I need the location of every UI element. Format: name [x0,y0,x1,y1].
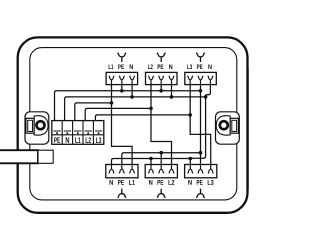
top box U2 terminal forks [148,76,174,85]
strain relief symbol below U4 [117,189,126,198]
strain relief symbol above U2 [157,53,166,62]
wire bottom N bus (y=158.5) [112,159,191,165]
bottom box U4 labels N PE L1 [109,180,134,185]
bottom box U6 labels N PE L3 [188,180,213,185]
wire bottom box2 N terminal to bottom N bus [150,159,152,165]
cable gland right (mirrored) [215,112,239,144]
wire bottom box3 N terminal to junction [189,158,191,164]
top box U3 terminal forks [187,76,213,85]
wire N feeder: N bus end down, jog left to bottom N bus end [190,95,205,159]
bottom box U5 labels N PE L2 [149,180,174,185]
wire top box3 PE terminal through PE bus end down to bottom PE bus [200,85,202,165]
strain relief symbol below U6 [196,189,205,198]
junction dots bottom PE bus [159,151,202,155]
top box U3 labels L3 PE N [187,64,211,69]
wire top box3 N terminal jog to N bus end [206,85,211,95]
top box U2 labels L2 PE N [148,64,172,69]
wire bottom box2 PE terminal to bottom PE bus [160,153,162,165]
cropped object at right image edge [247,69,249,190]
cable gland left (with clamp and sealing nut) [25,112,49,144]
junction dots bottom N bus [149,157,192,161]
strain relief symbol below U5 [157,189,166,198]
wire L2 drop: top box2 L2 terminal to L2 bus to bottom box2 L2 [151,85,172,165]
bottom box U5 terminal forks [148,165,174,174]
junction dot L2 bus end [149,107,153,111]
bottom outlet box U4 [106,165,138,178]
top outlet box U3 [185,72,217,84]
wire L2 bus (horizontal, y=108.4) [85,108,151,120]
wire top box2 PE terminal to PE bus [160,85,162,91]
junction dot L1 bus end [110,101,114,105]
wire bottom PE bus (y=152.7) [122,153,201,165]
junction dots on PE bus [120,89,202,93]
wire N bus (horizontal, y=96.9) [65,97,206,121]
wire PE bus (horizontal, y=90.8) [55,91,201,121]
input terminal block X0 (PE N L1 L2 L3) [52,121,104,145]
strain relief symbol above U1 [117,53,126,62]
bottom box U6 terminal forks [188,165,214,174]
wire top box1 PE terminal to PE bus [121,85,123,91]
input block clamp point dots [56,132,100,134]
top outlet box U2 [146,72,178,84]
wire top box1 N terminal to N bus [131,85,133,97]
top box U1 labels L1 PE N [109,64,133,69]
wire top box2 N terminal to N bus [171,85,173,97]
cable stub entering left wall [0,150,53,163]
junction dot L3 bus end [188,113,192,117]
top box U1 terminal forks [109,76,135,85]
junction dots on N bus [130,95,207,99]
wire L3 drop: top box3 L3 terminal to L3 bus to bottom box3 L3 [190,85,211,165]
bottom outlet box U6 [185,165,217,178]
bottom box U4 terminal forks [109,165,135,174]
enclosure outer shell [18,37,248,212]
strain relief symbol above U3 [196,53,205,62]
enclosure inner wall [30,48,237,200]
bottom outlet box U5 [145,165,177,178]
input block labels PE N L1 L2 L3 [54,137,101,143]
top outlet box U1 [106,72,138,84]
wire L1 drop: top box1 L1 terminal to L1 bus to bottom box1 L1 [112,85,133,165]
wire L1 bus (horizontal, y=102.9) [75,103,112,121]
wire L3 bus (horizontal, y=114.9) [95,115,190,121]
